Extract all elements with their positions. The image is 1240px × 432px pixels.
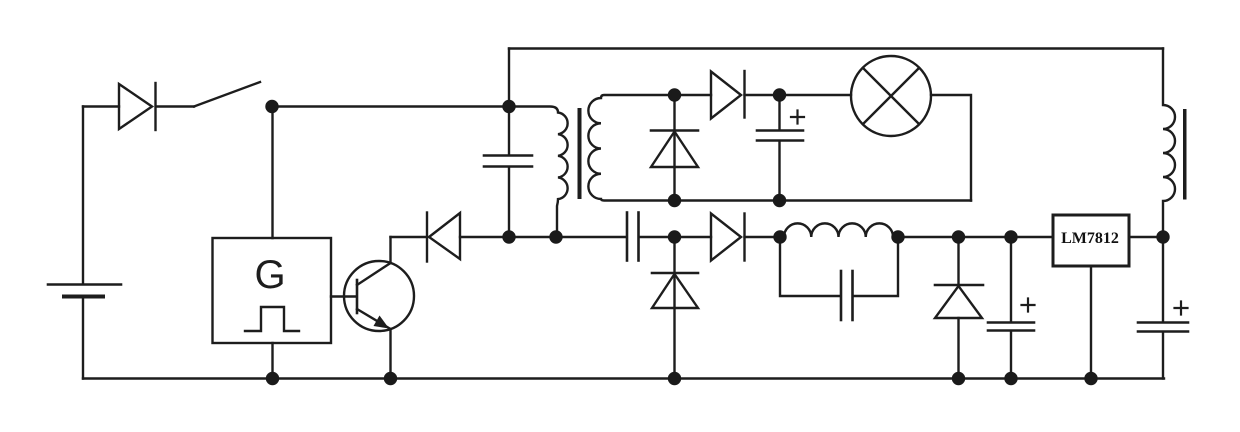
svg-text:LM7812: LM7812 [1061,230,1119,247]
svg-text:G: G [254,253,285,297]
